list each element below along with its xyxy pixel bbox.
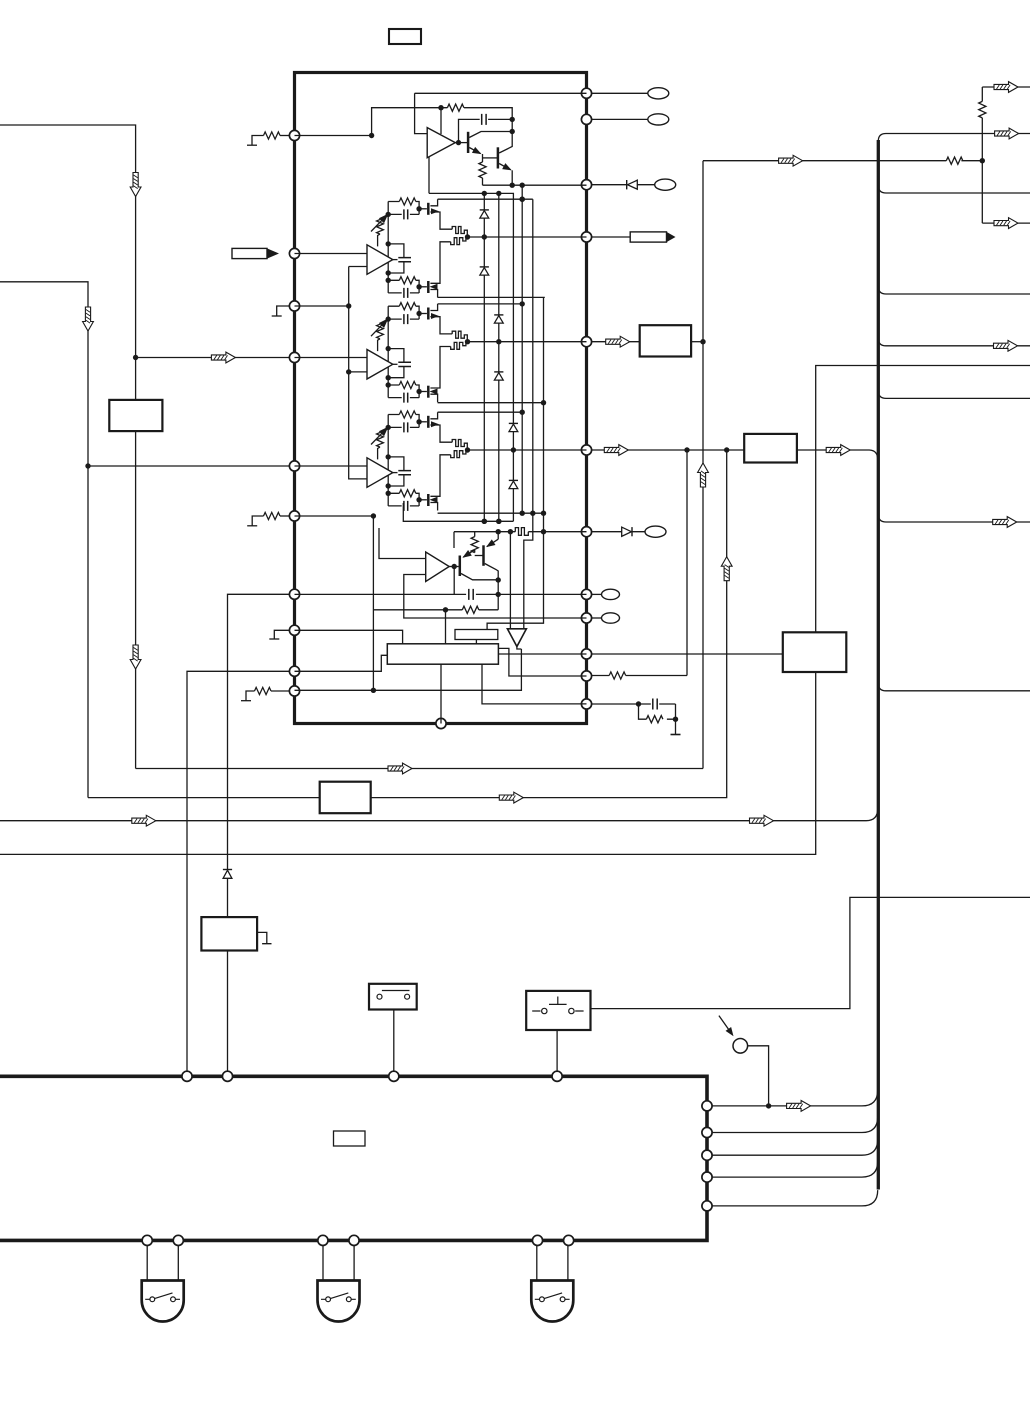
- column wire C with top rail: [429, 193, 513, 521]
- wire SW2 right to off-page: [591, 897, 1030, 1008]
- bus branch Y691: [878, 683, 1030, 691]
- leaf switch S3 body: [531, 1281, 573, 1322]
- driver rail 2b: [438, 402, 544, 404]
- coil output wire 3 to pin19: [468, 449, 586, 451]
- inverter (nabla): [509, 532, 511, 629]
- U1 left pin 2: [289, 248, 299, 258]
- leaf switch S3 wires: [537, 1245, 568, 1280]
- transistor Q3: [459, 556, 462, 577]
- block box DELAY1: [109, 400, 162, 431]
- wire output node to capacitor row: [453, 567, 455, 595]
- resistor R7 vertical: [471, 537, 478, 553]
- push switch box SW2: [526, 991, 590, 1030]
- resistor R8 row: [373, 609, 498, 611]
- arrow down W1 lower: [130, 645, 141, 669]
- leaf switch S1 wires: [147, 1245, 178, 1280]
- terminator stub at pin8: [274, 630, 289, 639]
- controller pin3 wire to bus: [712, 1139, 878, 1155]
- diode D2 (cathode right): [622, 527, 632, 536]
- arrow up X3: [721, 557, 732, 581]
- U1 left pin 4: [289, 352, 299, 362]
- block box FILTER1: [640, 325, 691, 356]
- terminator stub at R3: [246, 691, 255, 701]
- U1 bottom pin 12: [436, 718, 446, 728]
- transistor Q4: [482, 545, 485, 566]
- sub block box: [455, 630, 498, 640]
- wire row Y820 to bus: [0, 809, 878, 821]
- diode D7: [509, 422, 518, 424]
- test point TP1: [648, 88, 669, 99]
- coil L4: [515, 528, 528, 536]
- wire row Y161 with resistor R9: [703, 160, 982, 162]
- lower op-amp U1e: [426, 552, 450, 582]
- RC network at pin13: [592, 703, 676, 705]
- vertical wire node down: [372, 516, 374, 690]
- output node: [456, 140, 461, 145]
- lower bus wire: [403, 503, 513, 521]
- feedback stub: [440, 108, 442, 134]
- controller pin2 wire to bus: [712, 1117, 878, 1133]
- switch box SW1 (two contacts): [369, 984, 417, 1010]
- leaf switch S2 body: [318, 1281, 360, 1322]
- controller top pin B: [222, 1071, 232, 1081]
- wire pin17 to test point: [592, 593, 602, 595]
- wire pin18 with diode D2: [592, 531, 646, 533]
- terminator stub at RL1: [257, 932, 271, 943]
- lower op-amp U1e input wires: [379, 528, 426, 559]
- bus branch Y294: [878, 286, 1030, 294]
- wire pin16 internal to op-amp: [404, 575, 587, 619]
- U1 left pin 8: [289, 625, 299, 635]
- coil output wire 1 to pin21: [468, 236, 586, 238]
- bus branch Y193: [878, 185, 1030, 193]
- wire pin15 to box MB: [592, 653, 783, 655]
- resistor R3 at pin10: [271, 690, 290, 692]
- lower coil row to pin18: [454, 532, 587, 548]
- wire pin7 external down: [228, 594, 290, 869]
- wire box to bus with arrow: [797, 450, 878, 460]
- servo driver IC U1 outline: [295, 73, 587, 724]
- column wire F: [487, 297, 543, 629]
- wire pin20 with arrow to box: [592, 341, 640, 343]
- diode D4: [480, 266, 489, 268]
- terminator stub at R2: [252, 516, 263, 526]
- transistor Q1: [467, 132, 470, 153]
- column X2 up with arrow: [702, 161, 704, 769]
- capacitor C1: [459, 119, 513, 142]
- U1 left pin 1: [289, 130, 299, 140]
- wire pin23 to test point: [592, 118, 648, 120]
- test point TP6: [602, 613, 620, 623]
- diode D6: [494, 371, 503, 373]
- collector column: [497, 580, 499, 610]
- column wire E: [524, 199, 533, 629]
- U1 right pin 13: [581, 699, 591, 709]
- wire pin21 to label: [592, 236, 631, 238]
- junction W1 to pin4: [133, 355, 138, 360]
- U1 right pin 18: [581, 527, 591, 537]
- wire SW1 to controller: [393, 1010, 395, 1072]
- controller right pin 3: [702, 1150, 712, 1160]
- wire logic box to pin13: [482, 664, 587, 704]
- logic block box: [387, 644, 498, 664]
- arrow down W1: [130, 173, 141, 197]
- wire row Y797 right segment to column X3: [371, 450, 727, 798]
- resistor R6 vertical: [482, 154, 484, 162]
- wire pin16 to test point: [592, 617, 602, 619]
- controller right pin 1: [702, 1101, 712, 1111]
- U1 right pin 24: [581, 88, 591, 98]
- bus branch Y346 with arrow: [878, 338, 1030, 346]
- controller right pin 2: [702, 1127, 712, 1137]
- controller bottom pin S1b: [173, 1235, 183, 1245]
- leaf switch S1 body: [142, 1281, 184, 1322]
- U1 right pin 23: [581, 114, 591, 124]
- U1 right pin 14: [581, 671, 591, 681]
- wire pin14 resistor R4 to node: [592, 675, 688, 677]
- op-amp U1a input wires: [415, 93, 429, 193]
- bus top curve to arrow wire: [878, 134, 1030, 142]
- wire pin24 to test point: [592, 92, 648, 94]
- wire W2 horizontal: [0, 282, 88, 798]
- diode D1 (cathode left): [626, 180, 628, 189]
- terminator stub at R1: [252, 136, 264, 146]
- transistor Q2: [497, 147, 500, 168]
- motor driver channel 3 (op-amp U1d, FETs, coil): [367, 411, 470, 511]
- column wire B: [498, 193, 500, 521]
- U1 left pin 7: [289, 589, 299, 599]
- controller block outline: [0, 1076, 707, 1240]
- controller top pin D: [552, 1071, 562, 1081]
- motor driver channel 1 (op-amp U1b, FETs, coil): [367, 198, 470, 298]
- op-amp U1a: [427, 128, 455, 158]
- coil output wire 2 to pin20: [468, 341, 586, 343]
- U1 right pin 17: [581, 589, 591, 599]
- wire probe to controller pin 1 wire: [748, 1046, 769, 1106]
- block box MB: [783, 632, 847, 672]
- controller bottom pin S2b: [349, 1235, 359, 1245]
- resistor R1 at pin1: [280, 135, 290, 137]
- test probe circle: [733, 1039, 748, 1054]
- wire W1 horizontal top: [0, 125, 136, 400]
- wire emitter row to pin22: [483, 184, 587, 186]
- wire W1 below box: [135, 431, 137, 768]
- controller right pin 5: [702, 1201, 712, 1211]
- diode D3: [480, 209, 489, 211]
- label box inside controller: [334, 1131, 366, 1146]
- terminator stub at pin3: [277, 306, 290, 316]
- leaf switch S3 contacts: [540, 1297, 545, 1302]
- test point TP5: [602, 589, 620, 599]
- wire pin22 with diode D1: [592, 184, 655, 186]
- signal label arrow at pin21: [630, 232, 666, 242]
- wire pin9 internal: [295, 655, 388, 671]
- U1 left pin 3: [289, 301, 299, 311]
- leaf switch S2 wires: [323, 1245, 354, 1280]
- wire logic box to pin12: [440, 664, 442, 723]
- U1 right pin 15: [581, 649, 591, 659]
- wire arrow right Y223: [982, 222, 1030, 224]
- wire pin6 internal to node: [295, 515, 374, 517]
- wire pin24 internal: [415, 92, 587, 94]
- relay box RL1: [201, 917, 257, 950]
- main harness bus: [877, 140, 880, 1190]
- wire pin4 with arrow: [136, 357, 290, 359]
- controller top pin C: [389, 1071, 399, 1081]
- test point TP4: [645, 526, 666, 537]
- wire pin9 external down: [187, 671, 290, 1071]
- U1 left pin 9: [289, 666, 299, 676]
- controller bottom pin S1a: [142, 1235, 152, 1245]
- wire arrow top right: [982, 86, 1030, 88]
- vertical wire node to pin19 line: [686, 450, 688, 676]
- probe pointer arrow: [719, 1016, 732, 1034]
- wire row Y768 to column X2: [136, 768, 703, 770]
- bus branch Y522 with arrow: [878, 514, 1030, 522]
- U1 left pin 5: [289, 461, 299, 471]
- diode D8: [509, 479, 518, 481]
- wire pin1 to node: [295, 135, 372, 137]
- driver rail 2a: [438, 303, 523, 305]
- block box FILTER2: [744, 434, 797, 463]
- controller bottom pin S3a: [532, 1235, 542, 1245]
- wire pin19 with arrow: [592, 449, 745, 451]
- wire box to node: [691, 341, 703, 343]
- wire row Y854 to box MB: [0, 672, 816, 854]
- column wire A: [483, 193, 485, 521]
- U1 right pin 20: [581, 337, 591, 347]
- controller bottom pin S2a: [318, 1235, 328, 1245]
- inverter output wire to pin10: [295, 647, 522, 691]
- test point TP2: [648, 114, 669, 125]
- wire pin8 internal: [295, 630, 403, 644]
- controller top pin A: [182, 1071, 192, 1081]
- wire SW2 to controller: [556, 1030, 558, 1071]
- controller pin4 wire to bus: [712, 1161, 878, 1177]
- wire node up and right with resistor R5: [372, 108, 513, 136]
- label box (top): [389, 29, 421, 44]
- resistor R2 at pin6: [280, 515, 290, 517]
- test point TP3: [655, 179, 676, 190]
- U1 right pin 21: [581, 232, 591, 242]
- output node to transistor Q3: [449, 566, 458, 568]
- wire row Y797 left segment: [88, 797, 320, 799]
- controller right pin 4: [702, 1172, 712, 1182]
- U1 left pin 6: [289, 511, 299, 521]
- controller pin5 wire to bus end: [712, 1190, 878, 1206]
- block box DELAY2: [320, 782, 371, 814]
- arrow down W2: [83, 307, 94, 331]
- U1 right pin 16: [581, 613, 591, 623]
- column wire D: [521, 185, 523, 513]
- wire box MB up and right: [816, 366, 1030, 633]
- driver rail 1c: [438, 296, 545, 298]
- U1 right pin 22: [581, 180, 591, 190]
- driver rail 1b: [438, 198, 533, 200]
- bus branch Y398: [878, 391, 1030, 399]
- wire RL1 to controller: [227, 951, 229, 1072]
- driver rail 3b: [438, 512, 544, 514]
- controller pin1 wire to bus with arrow: [712, 1090, 878, 1106]
- capacitor C2 row pin7 to pin17: [295, 593, 587, 595]
- driver rail 3a: [438, 411, 523, 413]
- motor driver channel 2 (op-amp U1c, FETs, coil): [367, 303, 470, 403]
- diode D9: [223, 869, 232, 871]
- U1 left pin 10: [289, 686, 299, 696]
- wire logic box to pin15: [498, 653, 586, 655]
- U1 right pin 19: [581, 445, 591, 455]
- controller bottom pin S3b: [564, 1235, 574, 1245]
- leaf switch S2 contacts: [326, 1297, 331, 1302]
- leaf switch S1 contacts: [150, 1297, 155, 1302]
- resistor network column: [981, 87, 983, 223]
- signal label arrow at pin2: [232, 248, 267, 258]
- wire logic box to pin14: [498, 648, 586, 676]
- wire R8 node to logic box: [445, 610, 447, 644]
- op-amp input bus from pin3: [295, 254, 368, 479]
- junction W2 to pin5: [85, 463, 90, 468]
- diode D5: [494, 314, 503, 316]
- ground: [671, 734, 681, 736]
